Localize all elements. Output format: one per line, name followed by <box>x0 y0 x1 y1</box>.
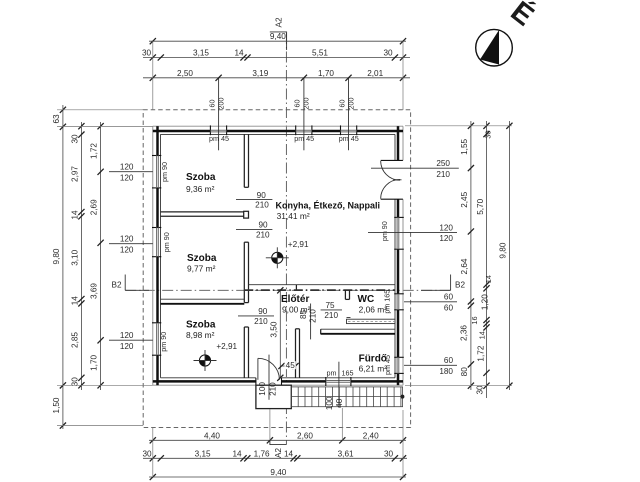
tick <box>98 240 104 246</box>
svg-text:80: 80 <box>460 367 469 377</box>
svg-text:3,69: 3,69 <box>90 283 99 299</box>
right extension lines <box>405 125 512 127</box>
window 60/200 top 2 <box>295 125 297 135</box>
tick <box>267 437 273 443</box>
svg-text:5,51: 5,51 <box>312 49 328 58</box>
svg-text:14: 14 <box>284 449 294 458</box>
tick <box>158 54 164 60</box>
svg-text:210: 210 <box>254 317 268 326</box>
svg-text:1,50: 1,50 <box>52 397 61 413</box>
svg-text:14: 14 <box>477 331 486 339</box>
bath north wall P6 <box>321 328 395 330</box>
bottom row1 dim line <box>149 439 406 441</box>
tick <box>468 123 474 129</box>
partition wall P4 cap at passage <box>295 285 297 291</box>
svg-text:63: 63 <box>52 114 61 124</box>
tick <box>78 375 84 381</box>
door 100/210 bottom: jamb caps <box>255 378 257 385</box>
tick <box>392 455 398 461</box>
left wall outer face <box>152 126 154 385</box>
svg-text:30: 30 <box>384 449 394 458</box>
door1 90/210 label <box>236 199 272 201</box>
svg-text:14: 14 <box>484 275 493 283</box>
svg-text:100: 100 <box>325 396 334 410</box>
tick <box>244 54 250 60</box>
tick <box>468 383 474 389</box>
partition wall P3 <box>161 298 245 300</box>
axis A2 top L-mark <box>270 32 287 50</box>
tick <box>400 455 406 461</box>
svg-text:120: 120 <box>439 234 453 243</box>
svg-text:90: 90 <box>257 191 267 200</box>
svg-text:+2,91: +2,91 <box>216 342 237 351</box>
axis B2 right solid arm <box>421 289 451 291</box>
svg-text:9,40: 9,40 <box>270 468 286 477</box>
tick <box>392 54 398 60</box>
svg-text:pm 45: pm 45 <box>209 134 229 143</box>
window axis line 1 <box>218 78 220 151</box>
compass needle <box>480 30 499 65</box>
tick <box>483 383 489 389</box>
svg-text:9,40: 9,40 <box>270 32 286 41</box>
left wall inner face <box>160 134 162 377</box>
svg-text:60: 60 <box>207 100 216 108</box>
tick <box>98 123 104 129</box>
tick <box>483 317 489 323</box>
tick <box>216 75 222 81</box>
axis A2 vertical dash-dot <box>285 33 287 445</box>
partition wall P4 top line <box>249 284 396 286</box>
partition wall P2 <box>161 211 244 213</box>
tick <box>78 296 84 302</box>
door2 90/210 label <box>236 228 272 230</box>
top row1 dim line 9,40 <box>149 40 406 42</box>
svg-text:pm 90: pm 90 <box>159 332 168 352</box>
top row3 dim line <box>143 77 410 79</box>
bottom row2 dim line <box>143 457 407 459</box>
svg-text:30: 30 <box>70 377 79 387</box>
bath door 85/210 rotated label <box>310 304 312 340</box>
svg-text:4,40: 4,40 <box>204 431 220 440</box>
svg-text:120: 120 <box>120 342 134 351</box>
svg-text:16: 16 <box>470 316 479 324</box>
tick <box>468 298 474 304</box>
svg-text:210: 210 <box>256 230 270 239</box>
svg-text:3,50: 3,50 <box>269 321 278 337</box>
svg-text:14: 14 <box>70 210 79 220</box>
entry door 100/210 rotated label <box>268 355 270 400</box>
tick <box>277 375 283 381</box>
svg-text:3,15: 3,15 <box>195 449 211 458</box>
tick <box>483 285 489 291</box>
svg-text:1,72: 1,72 <box>476 345 485 361</box>
svg-text:200: 200 <box>346 98 355 110</box>
svg-text:14: 14 <box>70 296 79 306</box>
tick <box>60 423 66 429</box>
svg-text:pm 45: pm 45 <box>294 134 314 143</box>
window 120/120 left W2 <box>152 227 161 229</box>
pm165 label bath bottom window <box>338 362 340 408</box>
axis A2 bottom jog <box>270 440 287 444</box>
tick <box>98 169 104 175</box>
bottom wall inner face <box>161 377 256 379</box>
svg-text:45: 45 <box>286 361 296 370</box>
level symbol konyha <box>272 252 283 263</box>
compass circle <box>476 29 513 66</box>
svg-text:60: 60 <box>337 100 346 108</box>
top row2 dim line <box>143 57 410 59</box>
45 mini dim <box>282 365 296 367</box>
svg-text:1,70: 1,70 <box>90 354 99 370</box>
tick <box>278 363 284 369</box>
axis B2 left mark <box>124 275 126 291</box>
svg-text:30: 30 <box>476 385 485 395</box>
svg-text:30: 30 <box>70 134 79 144</box>
tick <box>150 38 156 44</box>
wc door 75/210 label <box>321 309 342 311</box>
svg-text:8,98 m²: 8,98 m² <box>186 330 215 340</box>
tick <box>339 437 345 443</box>
svg-text:pm 45: pm 45 <box>339 134 359 143</box>
partition wall P1 middle piece <box>243 242 245 302</box>
door 250/210 right: jamb caps <box>381 159 403 161</box>
svg-text:2,85: 2,85 <box>70 332 79 348</box>
tick <box>158 455 164 461</box>
door 250/210 right: swing arcs <box>381 161 400 180</box>
axis B2 left solid arm <box>125 289 149 291</box>
bottom wall thick segments <box>153 380 256 383</box>
bath west wall <box>295 329 297 378</box>
tick <box>150 75 156 81</box>
svg-text:1,20: 1,20 <box>481 294 490 310</box>
terrace hatch lines <box>297 387 299 407</box>
top extension lines <box>152 41 154 110</box>
svg-text:210: 210 <box>324 311 338 320</box>
svg-text:200: 200 <box>216 98 225 110</box>
WC west wall stub <box>344 290 346 299</box>
svg-text:60: 60 <box>444 303 454 312</box>
roof overhang dashed outline <box>143 110 410 428</box>
tick <box>78 300 84 306</box>
left col L3 <box>100 122 102 390</box>
svg-text:120: 120 <box>120 235 134 244</box>
tick <box>483 370 489 376</box>
svg-text:pm 45: pm 45 <box>383 355 392 375</box>
svg-text:30: 30 <box>142 449 152 458</box>
tick <box>244 455 250 461</box>
door 100/210 swing arc <box>258 358 280 380</box>
window 120/120 left W1 <box>152 155 161 157</box>
bottom extension lines <box>152 428 154 478</box>
120/120 label right window <box>368 231 457 233</box>
svg-text:120: 120 <box>439 223 453 232</box>
tick <box>483 123 489 129</box>
svg-text:3,15: 3,15 <box>193 49 209 58</box>
top wall inner face <box>161 133 396 135</box>
svg-text:1,70: 1,70 <box>318 69 334 78</box>
svg-text:2,01: 2,01 <box>367 69 383 78</box>
svg-text:A2: A2 <box>274 17 283 27</box>
tick <box>400 54 406 60</box>
svg-text:9,80: 9,80 <box>52 248 61 264</box>
tick <box>468 228 474 234</box>
door jamb box between doors <box>244 211 249 218</box>
svg-text:30: 30 <box>383 49 393 58</box>
svg-text:pm: pm <box>327 368 337 377</box>
window 60/60 WC right <box>394 293 404 295</box>
svg-text:A2: A2 <box>274 448 283 458</box>
partition wall P4 bottom dashed (on axis B2) <box>244 289 395 291</box>
window 60/200 top 1 <box>209 125 211 135</box>
svg-text:+2,91: +2,91 <box>288 240 309 249</box>
svg-text:210: 210 <box>436 170 450 179</box>
window 60/200 top 3 <box>340 125 342 135</box>
svg-text:5,70: 5,70 <box>476 198 485 214</box>
svg-text:3,19: 3,19 <box>252 69 268 78</box>
svg-text:120: 120 <box>120 245 134 254</box>
bottom wall outer face (door gap) <box>153 384 256 386</box>
tick <box>78 209 84 215</box>
svg-text:14: 14 <box>234 49 244 58</box>
svg-text:30: 30 <box>142 49 152 58</box>
axis B2 horizontal dash-dot <box>125 289 450 291</box>
svg-text:165: 165 <box>342 368 354 377</box>
svg-text:Konyha, Étkező, Nappali: Konyha, Étkező, Nappali <box>276 200 381 210</box>
svg-text:90: 90 <box>258 307 268 316</box>
svg-text:2,60: 2,60 <box>297 431 313 440</box>
svg-text:210: 210 <box>269 382 278 396</box>
svg-text:1,55: 1,55 <box>460 138 469 154</box>
svg-text:31,41 m²: 31,41 m² <box>277 211 310 221</box>
svg-text:100: 100 <box>258 382 267 396</box>
svg-text:60: 60 <box>444 293 454 302</box>
tick <box>301 75 307 81</box>
right wall thick segments <box>397 126 400 160</box>
tick <box>78 382 84 388</box>
door 250/210 meeting tick <box>393 179 401 181</box>
tick <box>483 131 489 137</box>
tick <box>483 324 489 330</box>
tick <box>150 54 156 60</box>
corridor 3,50 dim <box>279 290 281 378</box>
tick <box>150 474 156 480</box>
entrance landing <box>256 385 291 408</box>
svg-text:B2: B2 <box>111 280 121 289</box>
tick <box>98 337 104 343</box>
svg-text:Szoba: Szoba <box>186 172 216 183</box>
svg-text:120: 120 <box>120 331 134 340</box>
svg-text:pm 165: pm 165 <box>382 290 391 314</box>
tick <box>506 123 512 129</box>
svg-text:210: 210 <box>255 201 269 210</box>
svg-text:2,50: 2,50 <box>177 69 193 78</box>
svg-text:pm 90: pm 90 <box>380 221 389 241</box>
tick <box>292 363 298 369</box>
terrace mid line <box>291 396 402 398</box>
terrace deck outline <box>291 387 402 407</box>
right col R3 9,80 <box>508 121 510 390</box>
door3 90/210 label <box>238 315 274 317</box>
bottom row3 dim line 9,40 <box>149 476 406 478</box>
svg-text:1,76: 1,76 <box>254 449 270 458</box>
level symbol szoba3 <box>199 355 210 366</box>
terrace corner dot <box>400 395 404 399</box>
250/210 label right door <box>371 167 459 169</box>
svg-text:210: 210 <box>309 309 318 323</box>
tick <box>483 282 489 288</box>
svg-text:2,45: 2,45 <box>460 191 469 207</box>
svg-text:30: 30 <box>484 130 493 138</box>
svg-text:9,77 m²: 9,77 m² <box>187 264 216 274</box>
svg-text:1,72: 1,72 <box>90 143 99 159</box>
tick <box>506 383 512 389</box>
tick <box>345 75 351 81</box>
window pm165 bath bottom <box>325 377 327 386</box>
svg-text:120: 120 <box>120 173 134 182</box>
svg-text:3,61: 3,61 <box>338 449 354 458</box>
left col L1 <box>62 105 64 429</box>
partition wall P1 upper piece <box>243 134 245 187</box>
right col R1 <box>470 121 472 390</box>
svg-text:pm 90: pm 90 <box>162 232 171 252</box>
svg-text:180: 180 <box>439 367 453 376</box>
120/120 label left W1 <box>109 171 153 173</box>
tick <box>98 382 104 388</box>
WC thin south partition <box>347 319 396 323</box>
window 120/120 left W3 <box>152 322 161 324</box>
svg-text:200: 200 <box>302 98 311 110</box>
window 120/120 right <box>394 216 404 218</box>
svg-text:3,10: 3,10 <box>70 249 79 265</box>
tick <box>60 107 66 113</box>
svg-text:2,69: 2,69 <box>90 199 99 215</box>
window axis line 2 <box>303 78 305 151</box>
svg-text:9,36 m²: 9,36 m² <box>186 184 215 194</box>
left col L2 <box>80 122 82 390</box>
svg-text:2,64: 2,64 <box>460 258 469 274</box>
door 100/210 leaf <box>257 358 259 380</box>
tick <box>240 54 246 60</box>
tick <box>294 455 300 461</box>
svg-text:75: 75 <box>325 301 335 310</box>
right wall inner face <box>394 134 396 160</box>
tick <box>468 165 474 171</box>
tick <box>78 123 84 129</box>
tick <box>277 287 283 293</box>
left extension lines <box>57 109 143 111</box>
svg-text:250: 250 <box>436 159 450 168</box>
tick <box>291 455 297 461</box>
120/120 label left W3 <box>109 339 153 341</box>
svg-text:120: 120 <box>120 163 134 172</box>
60/180 label bath window <box>404 364 457 366</box>
tick <box>400 38 406 44</box>
tick <box>78 213 84 219</box>
tick <box>150 455 156 461</box>
right col R2 <box>486 121 488 398</box>
tick <box>240 455 246 461</box>
window axis line 3 <box>348 78 350 151</box>
tick <box>483 321 489 327</box>
svg-text:85: 85 <box>299 310 308 320</box>
top wall thick segments <box>153 130 211 133</box>
svg-text:9,80: 9,80 <box>498 242 507 258</box>
left wall thick segments <box>156 126 159 155</box>
svg-text:14: 14 <box>232 449 242 458</box>
tick <box>78 132 84 138</box>
tick <box>150 437 156 443</box>
tick <box>400 474 406 480</box>
tick <box>468 361 474 367</box>
tick <box>60 382 66 388</box>
partition wall P1 lower piece <box>243 327 245 378</box>
svg-text:2,36: 2,36 <box>459 325 468 341</box>
axis B2 right mark <box>450 275 452 291</box>
svg-text:Szoba: Szoba <box>187 253 217 264</box>
window 60/180 bath right <box>394 356 404 358</box>
svg-text:2,97: 2,97 <box>70 166 79 182</box>
svg-text:pm 90: pm 90 <box>160 162 169 182</box>
120/120 label left W2 <box>109 243 153 245</box>
top wall outer face <box>153 125 403 127</box>
svg-text:60: 60 <box>293 100 302 108</box>
tick <box>468 303 474 309</box>
tick <box>60 124 66 130</box>
svg-text:90: 90 <box>258 221 268 230</box>
svg-text:B2: B2 <box>455 280 465 289</box>
svg-text:2,40: 2,40 <box>363 431 379 440</box>
tick <box>400 75 406 81</box>
svg-text:60: 60 <box>444 356 454 365</box>
svg-text:40: 40 <box>335 398 344 408</box>
tick <box>400 437 406 443</box>
right wall outer face (door gap) <box>402 126 404 160</box>
60/60 label wc window <box>404 301 457 303</box>
